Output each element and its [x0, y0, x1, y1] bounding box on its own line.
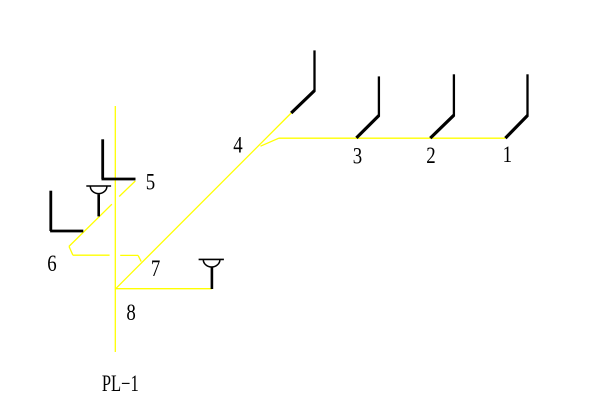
fixture 5 symbol (L-shape) — [102, 139, 136, 179]
svg-text:4: 4 — [233, 132, 243, 158]
svg-text:7: 7 — [151, 255, 160, 281]
svg-text:8: 8 — [126, 299, 135, 325]
wire: short connector into main diagonal near node 7 — [138, 255, 141, 261]
wire: horizontal pipe right of stack at y=255 — [120, 254, 138, 256]
floor drain FD7 (line + dome + stem) — [199, 259, 224, 289]
svg-text:1: 1 — [503, 141, 512, 167]
wire: branch pipe from fixture 5 down-left (upper part, breaks at stack crossing) — [119, 181, 135, 197]
svg-text:PL−1: PL−1 — [102, 371, 139, 396]
stack riser PL-1 (vertical pipe) — [114, 106, 116, 352]
fixture 4 symbol (diagonal + vertical) — [291, 50, 314, 113]
fixture 2 symbol (diagonal + vertical) — [430, 74, 454, 138]
wire: main diagonal pipe from stack junction up to fixture 4 — [116, 113, 292, 289]
wire: branch connector from main diagonal to horizontal main — [261, 138, 279, 146]
fixture 1 symbol (diagonal + vertical) — [505, 74, 527, 138]
svg-text:6: 6 — [47, 250, 56, 276]
wire: horizontal branch from stack junction to floor drain FD7 — [116, 288, 212, 290]
wire: elbow jog below fixture 6 — [69, 246, 73, 255]
svg-text:5: 5 — [146, 169, 155, 195]
svg-text:2: 2 — [426, 142, 435, 168]
wire: horizontal pipe left of stack at y=255 — [73, 254, 110, 256]
floor drain FD5 (line + dome + stem) — [86, 186, 111, 216]
svg-text:3: 3 — [353, 143, 362, 169]
wire: horizontal main pipe serving fixtures 1-3 — [279, 137, 506, 139]
fixture 6 symbol (L-shape) — [50, 191, 83, 231]
fixture 3 symbol (diagonal + vertical) — [356, 76, 379, 137]
wire: branch pipe continues through drain FD5 and fixture 6 to elbow — [69, 204, 112, 246]
